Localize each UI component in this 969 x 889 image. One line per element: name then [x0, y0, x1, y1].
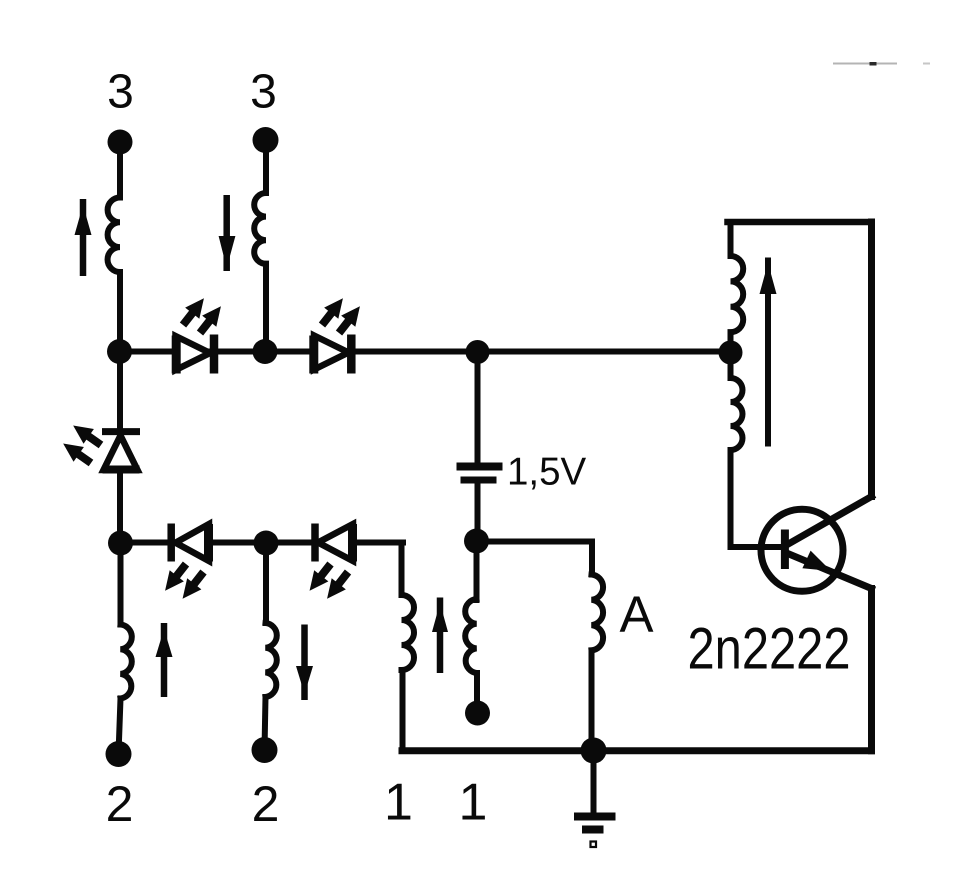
svg-text:2: 2 — [106, 776, 134, 832]
svg-text:1,5V: 1,5V — [507, 451, 587, 494]
svg-text:2: 2 — [252, 776, 280, 832]
svg-text:A: A — [620, 586, 654, 643]
svg-text:1: 1 — [384, 774, 413, 832]
svg-text:3: 3 — [107, 66, 134, 119]
svg-text:1: 1 — [459, 774, 488, 832]
svg-text:3: 3 — [250, 66, 277, 119]
svg-text:2n2222: 2n2222 — [688, 617, 851, 682]
